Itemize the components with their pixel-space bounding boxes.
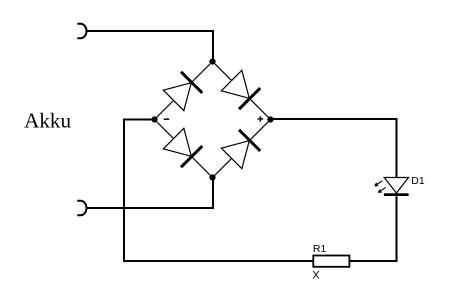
svg-text:X: X: [312, 269, 320, 281]
svg-text:Akku: Akku: [24, 109, 71, 133]
svg-text:R1: R1: [313, 243, 327, 255]
svg-text:D1: D1: [411, 175, 425, 187]
